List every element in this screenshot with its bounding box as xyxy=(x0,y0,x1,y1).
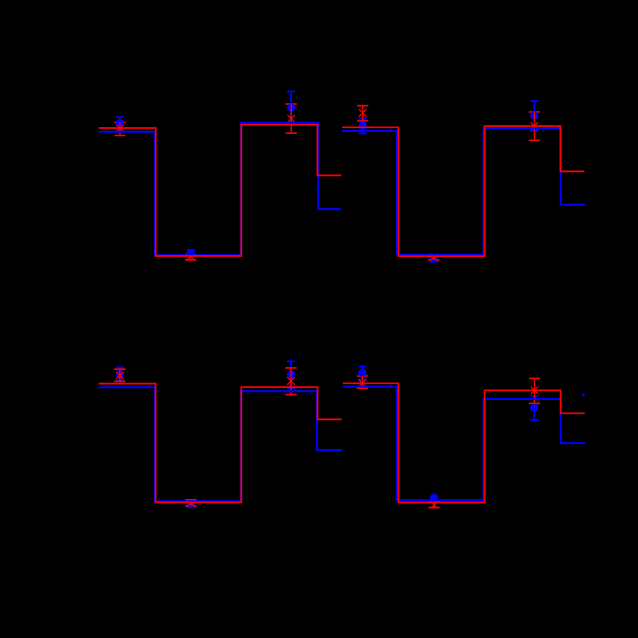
top M6 red x marker xyxy=(531,122,539,130)
top M1 red x marker xyxy=(116,125,124,133)
top M5 red x marker xyxy=(430,253,438,261)
bottom M2 blue square marker xyxy=(187,500,195,508)
top M5 blue square marker xyxy=(430,255,438,263)
top M2 red errorbar line xyxy=(190,255,192,260)
top M2 blue square marker xyxy=(187,249,195,257)
top M1 blue circle marker xyxy=(116,119,124,127)
top M5 red errorbar line xyxy=(433,256,435,260)
bottom M3 red x marker xyxy=(287,377,295,385)
top M6 red errorbar caps xyxy=(529,112,540,140)
top M4 red x marker xyxy=(359,109,367,117)
top M2 red errorbar caps xyxy=(185,255,196,260)
bottom M1 red errorbar caps xyxy=(114,369,125,381)
bottom M3 blue circle marker xyxy=(287,370,295,378)
top M6 blue errorbar xyxy=(533,101,535,130)
top M4 blue errorbar xyxy=(362,119,364,134)
top M3 red errorbar line xyxy=(290,104,292,133)
bottom panel blue trace left xyxy=(99,387,343,501)
bottom M1 blue circle marker xyxy=(116,370,124,378)
bottom M4 blue circle marker xyxy=(358,369,366,377)
top M1 red errorbar line xyxy=(119,122,121,135)
bottom M4 red errorbar caps xyxy=(357,376,368,388)
top M1 red errorbar caps xyxy=(114,122,125,135)
bottom M6 red errorbar line xyxy=(534,378,536,403)
top M3 red x marker xyxy=(287,115,295,123)
bottom M1 red errorbar line xyxy=(119,369,121,381)
bottom M5 red x marker xyxy=(430,501,438,509)
bottom panel red trace right xyxy=(343,383,585,502)
bottom M6 blue errorbar xyxy=(533,396,535,420)
bottom M5 blue circle marker xyxy=(430,494,438,502)
bottom M6 blue circle marker xyxy=(530,404,538,412)
bottom M4 red errorbar line xyxy=(361,376,363,388)
bottom panel blue trace right xyxy=(343,387,586,501)
top panel red trace right xyxy=(342,126,584,256)
bottom M1 red x marker xyxy=(116,372,124,380)
bottom M1 blue errorbar xyxy=(119,367,121,380)
stray blue dot xyxy=(582,394,585,397)
bottom M5 red errorbar caps xyxy=(429,502,440,508)
bottom M3 blue errorbar xyxy=(290,361,292,388)
bottom M4 red x marker xyxy=(359,379,367,387)
top M6 blue circle marker xyxy=(530,111,538,119)
top panel red trace left xyxy=(99,125,342,256)
top M3 blue errorbar xyxy=(290,92,292,124)
bottom M2 red x marker xyxy=(187,499,195,507)
top M5 red errorbar caps xyxy=(428,256,439,260)
bottom M3 red errorbar caps xyxy=(285,368,296,395)
top M4 red errorbar line xyxy=(362,106,364,121)
top M4 blue circle marker xyxy=(359,121,367,129)
bottom M3 red errorbar line xyxy=(290,368,292,395)
top panel blue trace right xyxy=(342,128,585,255)
bottom M2 red errorbar caps xyxy=(185,500,196,506)
bottom M5 red errorbar line xyxy=(433,502,435,508)
top M3 blue circle marker xyxy=(287,103,295,111)
bottom M6 red x marker xyxy=(531,387,539,395)
top M3 red errorbar caps xyxy=(286,104,297,133)
top M6 red errorbar line xyxy=(533,112,535,140)
bottom panel red trace left xyxy=(99,384,342,503)
top M2 red x marker xyxy=(187,252,195,260)
bottom M4 blue errorbar xyxy=(361,366,363,379)
top M1 blue errorbar xyxy=(119,117,121,130)
top panel blue trace left xyxy=(99,123,341,256)
bottom M2 red errorbar line xyxy=(190,500,192,506)
top M4 red errorbar caps xyxy=(357,106,368,121)
bottom M6 red errorbar caps xyxy=(529,378,540,403)
